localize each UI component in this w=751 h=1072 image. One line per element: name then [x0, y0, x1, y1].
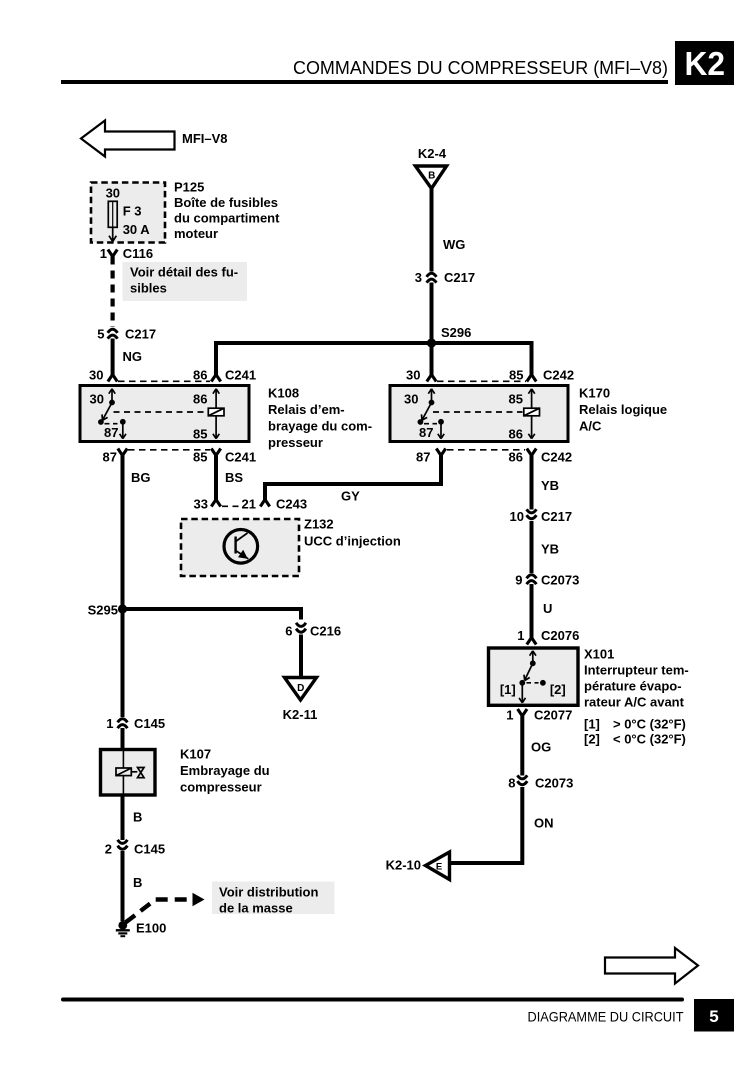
- svg-text:30: 30: [89, 368, 103, 383]
- svg-text:B: B: [133, 810, 142, 825]
- svg-text:[1]: [1]: [500, 682, 516, 697]
- fuse F3 30A: [108, 201, 150, 241]
- K107 clutch solenoid symbol: [116, 768, 144, 778]
- svg-text:P125: P125: [174, 180, 204, 195]
- svg-text:1: 1: [100, 246, 107, 261]
- svg-text:U: U: [543, 601, 552, 616]
- bottom-right next-page arrow: [605, 948, 698, 984]
- svg-text:5: 5: [709, 1007, 718, 1026]
- wire YB to C2073: [532, 521, 560, 573]
- svg-text:NG: NG: [123, 349, 143, 364]
- K108 internals: pin 30 switch to 87: [100, 389, 126, 439]
- svg-text:85: 85: [193, 427, 207, 442]
- svg-text:brayage du com-: brayage du com-: [268, 419, 372, 434]
- svg-text:6: 6: [285, 624, 292, 639]
- page number tab 5: [694, 999, 734, 1032]
- svg-text:> 0°C (32°F): > 0°C (32°F): [613, 717, 686, 732]
- svg-text:Boîte de fusibles: Boîte de fusibles: [174, 195, 278, 210]
- svg-text:MFI–V8: MFI–V8: [182, 131, 228, 146]
- fusebox P125: [91, 183, 165, 243]
- wire YB from K170-86: [532, 456, 560, 510]
- svg-text:K2-10: K2-10: [386, 858, 421, 873]
- wire BS from K108-85 to Z132 pin 33: [216, 456, 243, 500]
- node K2-4 label: [418, 146, 447, 161]
- svg-text:DIAGRAMME DU CIRCUIT: DIAGRAMME DU CIRCUIT: [528, 1009, 684, 1025]
- svg-text:OG: OG: [531, 740, 551, 755]
- svg-text:[2]: [2]: [550, 682, 566, 697]
- svg-text:K2-11: K2-11: [283, 707, 318, 722]
- off-page connector triangle B (K2-4): [415, 166, 446, 189]
- ground E100: [116, 921, 167, 937]
- K108 label: [268, 386, 372, 451]
- ECM Z132 box: [181, 519, 299, 576]
- wire ON to K2-10: [450, 787, 554, 863]
- svg-text:1: 1: [106, 716, 113, 731]
- svg-text:Interrupteur tem-: Interrupteur tem-: [584, 663, 689, 678]
- svg-text:K108: K108: [268, 386, 299, 401]
- svg-text:rateur A/C avant: rateur A/C avant: [584, 695, 685, 710]
- svg-text:S295: S295: [88, 603, 118, 618]
- wire B to ground: [123, 851, 143, 921]
- svg-text:pérature évapo-: pérature évapo-: [584, 679, 682, 694]
- svg-text:YB: YB: [541, 542, 559, 557]
- svg-text:3: 3: [415, 270, 422, 285]
- svg-text:Voir détail des fu-: Voir détail des fu-: [130, 265, 238, 280]
- svg-text:moteur: moteur: [174, 226, 218, 241]
- svg-text:C241: C241: [225, 450, 256, 465]
- Z132 transistor symbol: [224, 530, 258, 564]
- K108 internals: coil 86-85: [114, 389, 225, 439]
- svg-text:< 0°C (32°F): < 0°C (32°F): [613, 732, 686, 747]
- splice S296: [427, 325, 471, 348]
- svg-text:33: 33: [194, 497, 208, 512]
- svg-text:C217: C217: [444, 270, 475, 285]
- svg-text:86: 86: [193, 368, 207, 383]
- svg-text:C2077: C2077: [534, 708, 572, 723]
- K108 top pin row: 30 / 86 C241: [89, 368, 536, 383]
- svg-text:ON: ON: [534, 816, 554, 831]
- svg-text:9: 9: [515, 573, 522, 588]
- header rule: [61, 80, 668, 84]
- svg-text:E100: E100: [136, 921, 166, 936]
- wire C217 to S296: [430, 283, 434, 346]
- svg-text:C2073: C2073: [541, 573, 579, 588]
- svg-text:86: 86: [509, 450, 523, 465]
- off-page connector triangle E (K2-10): [426, 852, 450, 880]
- fusebox label P125: [174, 180, 280, 242]
- svg-text:85: 85: [509, 368, 523, 383]
- splice S295: [88, 603, 127, 618]
- wire NG: [113, 339, 142, 375]
- connector 1 C2077: [506, 708, 572, 723]
- svg-text:C2076: C2076: [541, 628, 579, 643]
- svg-text:B: B: [133, 875, 142, 890]
- Z132 pin row: 33 / 21 C243: [194, 497, 308, 512]
- K170 label: [579, 386, 667, 434]
- svg-text:X101: X101: [584, 647, 614, 662]
- wire U to C2076: [532, 584, 553, 638]
- K108 bottom pin row: 87 / 85 C241: [103, 449, 257, 465]
- svg-text:C2073: C2073: [535, 776, 573, 791]
- svg-text:87: 87: [419, 425, 433, 440]
- connector 5 C217: [97, 327, 156, 342]
- svg-text:compresseur: compresseur: [180, 780, 262, 795]
- svg-text:C216: C216: [310, 624, 341, 639]
- svg-text:5: 5: [97, 327, 104, 342]
- note box: Voir detail des fusibles: [123, 262, 248, 301]
- connector 2 C145: [105, 840, 165, 857]
- footer label: [528, 1009, 684, 1025]
- evaporator temperature switch X101 box: [489, 648, 579, 705]
- note box: Voir distribution de la masse: [212, 882, 335, 916]
- svg-text:[2]: [2]: [584, 732, 600, 747]
- connector 8 C2073: [508, 775, 573, 790]
- svg-text:87: 87: [416, 450, 430, 465]
- wire C216 to K2-11: [299, 635, 303, 678]
- svg-text:30: 30: [404, 392, 418, 407]
- X101 legend: [584, 717, 686, 747]
- svg-text:87: 87: [104, 425, 118, 440]
- svg-text:C217: C217: [125, 327, 156, 342]
- svg-text:C242: C242: [541, 450, 572, 465]
- svg-text:presseur: presseur: [268, 435, 323, 450]
- K170 internal pin numbers: [404, 392, 523, 442]
- wire B below K107: [123, 795, 143, 840]
- connector 10 C217: [510, 509, 573, 524]
- wire BG from K108-87 to S295: [123, 456, 151, 612]
- connector 1 C145: [106, 716, 165, 731]
- svg-text:[1]: [1]: [584, 717, 600, 732]
- connector 3 C217: [415, 270, 475, 285]
- off-page connector triangle D (K2-11): [285, 678, 317, 701]
- node K2-10 label: [386, 858, 421, 873]
- svg-text:85: 85: [193, 450, 207, 465]
- svg-text:Relais logique: Relais logique: [579, 402, 667, 417]
- wire GY from K170-87 to Z132 pin 21: [265, 456, 441, 504]
- wire OG: [522, 716, 551, 776]
- wire S295 to C216: [123, 609, 302, 620]
- K170 top pin row: 30 / 85 C242: [406, 368, 574, 383]
- connector pin 1 C116: [100, 246, 153, 261]
- svg-text:2: 2: [105, 842, 112, 857]
- svg-text:K170: K170: [579, 386, 610, 401]
- svg-text:Embrayage du: Embrayage du: [180, 763, 270, 778]
- svg-text:E: E: [436, 861, 442, 872]
- svg-text:BS: BS: [225, 470, 243, 485]
- connector 1 C2076: [517, 628, 579, 645]
- svg-text:sibles: sibles: [130, 281, 167, 296]
- svg-text:30: 30: [90, 392, 104, 407]
- svg-text:C145: C145: [134, 716, 165, 731]
- svg-text:1: 1: [517, 628, 524, 643]
- svg-text:S296: S296: [441, 325, 471, 340]
- svg-text:de la masse: de la masse: [219, 901, 293, 916]
- footer rule: [61, 998, 684, 1002]
- svg-text:Relais d’em-: Relais d’em-: [268, 402, 345, 417]
- wire C145 to K107: [121, 728, 125, 750]
- K2 page tab: [675, 41, 734, 85]
- svg-text:WG: WG: [443, 237, 465, 252]
- dashed wire C116 to C217: [110, 257, 114, 328]
- relay K108 box: [80, 386, 249, 442]
- svg-text:du compartiment: du compartiment: [174, 211, 280, 226]
- svg-text:85: 85: [509, 392, 523, 407]
- compressor clutch K107 box: [101, 750, 156, 796]
- X101 internals: [519, 651, 538, 703]
- svg-text:86: 86: [509, 427, 523, 442]
- svg-text:C116: C116: [123, 246, 153, 261]
- wire WG from K2-4 to C217: [432, 188, 466, 272]
- svg-text:30: 30: [406, 368, 420, 383]
- svg-text:C145: C145: [134, 842, 165, 857]
- node K2-11 label: [283, 707, 318, 722]
- svg-text:BG: BG: [131, 470, 151, 485]
- K170 internals: pin 30 switch to 87: [419, 389, 444, 439]
- relay K170 box: [390, 386, 568, 442]
- connector 9 C2073: [515, 573, 579, 588]
- K107 label: [180, 747, 270, 795]
- svg-text:87: 87: [103, 450, 117, 465]
- svg-text:K2: K2: [685, 45, 726, 82]
- K170 bottom pin row: 87 / 86 C242: [416, 449, 572, 465]
- K170 internals: coil 85-86: [433, 389, 540, 439]
- svg-text:YB: YB: [541, 478, 559, 493]
- svg-text:UCC d’injection: UCC d’injection: [304, 534, 401, 549]
- svg-text:8: 8: [508, 776, 515, 791]
- X101 label: [584, 647, 689, 710]
- K108 internal pin numbers: [90, 392, 208, 442]
- svg-text:21: 21: [242, 497, 256, 512]
- svg-text:30 A: 30 A: [123, 222, 151, 237]
- svg-text:C243: C243: [276, 497, 307, 512]
- svg-text:1: 1: [506, 708, 513, 723]
- wire S296 horizontal distribution: [216, 343, 532, 375]
- title text: [293, 57, 668, 78]
- svg-text:D: D: [297, 683, 304, 694]
- svg-text:C217: C217: [541, 509, 572, 524]
- svg-text:30: 30: [106, 186, 120, 201]
- svg-text:Z132: Z132: [304, 517, 334, 532]
- wire S295 down to C145: [121, 609, 125, 717]
- left page-reference arrow MFI-V8: [81, 121, 228, 157]
- svg-text:B: B: [428, 171, 435, 182]
- svg-text:86: 86: [193, 392, 207, 407]
- svg-text:A/C: A/C: [579, 419, 602, 434]
- svg-text:K2-4: K2-4: [418, 146, 447, 161]
- svg-text:C242: C242: [543, 368, 574, 383]
- dashed wire to ground distribution note: [126, 893, 205, 923]
- connector 6 C216: [285, 623, 341, 639]
- svg-text:C241: C241: [225, 368, 256, 383]
- svg-text:COMMANDES DU COMPRESSEUR (MFI–: COMMANDES DU COMPRESSEUR (MFI–V8): [293, 57, 668, 78]
- Z132 label: [304, 517, 401, 549]
- svg-text:F 3: F 3: [123, 204, 142, 219]
- svg-text:10: 10: [510, 509, 524, 524]
- svg-text:Voir distribution: Voir distribution: [219, 885, 318, 900]
- svg-text:GY: GY: [341, 489, 360, 504]
- svg-text:K107: K107: [180, 747, 211, 762]
